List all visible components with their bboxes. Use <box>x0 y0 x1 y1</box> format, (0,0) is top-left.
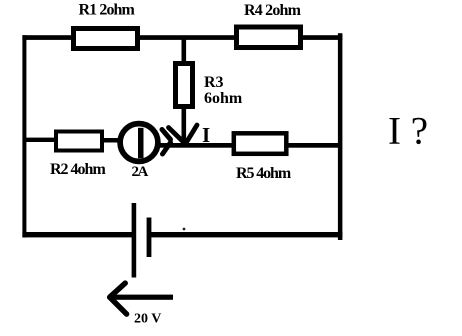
wire: middle rail left segment <box>23 138 57 142</box>
wire: bottom rail right of battery <box>151 232 342 237</box>
svg-text:R2 4ohm: R2 4ohm <box>50 161 106 178</box>
svg-text:R5 4ohm: R5 4ohm <box>236 165 292 182</box>
svg-text:R4 2ohm: R4 2ohm <box>244 2 302 19</box>
wire: top horizontal <box>22 35 342 40</box>
resistor R4 <box>237 27 301 48</box>
wire: left vertical <box>22 35 26 237</box>
arrow 20V head <box>110 283 127 314</box>
wire: bottom rail left of battery <box>22 232 132 237</box>
wire: R3 top stub <box>182 39 187 62</box>
current source circle <box>120 124 158 162</box>
arrow 20V shaft <box>110 295 173 300</box>
svg-text:I ?: I ? <box>388 109 428 152</box>
wire: middle rail right segment <box>158 143 342 148</box>
resistor R5 <box>234 133 286 154</box>
current source arrow chevron <box>162 130 171 155</box>
wire: middle rail R2-to-source segment <box>101 138 121 143</box>
current source inner bar <box>138 128 144 158</box>
resistor R2 <box>56 132 102 151</box>
current I arrowhead at node <box>169 125 198 144</box>
svg-text:R3: R3 <box>204 74 224 91</box>
svg-text:R1 2ohm: R1 2ohm <box>79 2 136 19</box>
stray dot near battery <box>183 228 186 231</box>
svg-text:6ohm: 6ohm <box>204 90 243 107</box>
svg-text:20 V: 20 V <box>134 312 161 327</box>
battery long plate <box>132 203 137 278</box>
wire: R3 bottom stub <box>182 109 187 143</box>
svg-text:I: I <box>202 123 210 147</box>
resistor R1 <box>74 29 138 49</box>
svg-text:2A: 2A <box>132 164 149 180</box>
wire: right vertical <box>338 33 343 240</box>
battery short plate <box>147 218 152 258</box>
resistor R3 <box>176 64 193 107</box>
